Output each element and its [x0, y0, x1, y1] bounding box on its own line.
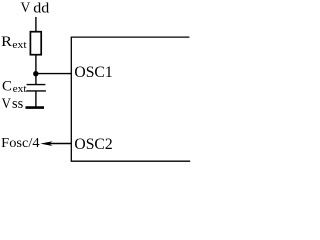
svg-text:ext: ext	[12, 40, 26, 51]
svg-text:Fosc/4: Fosc/4	[1, 136, 39, 151]
svg-text:V: V	[21, 0, 31, 16]
svg-text:dd: dd	[33, 0, 50, 16]
svg-text:ss: ss	[12, 96, 23, 112]
svg-text:R: R	[1, 33, 13, 50]
svg-text:OSC2: OSC2	[74, 136, 112, 153]
svg-text:V: V	[2, 95, 12, 112]
svg-text:C: C	[2, 78, 12, 95]
svg-text:OSC1: OSC1	[74, 64, 112, 81]
svg-text:ext: ext	[13, 84, 27, 95]
